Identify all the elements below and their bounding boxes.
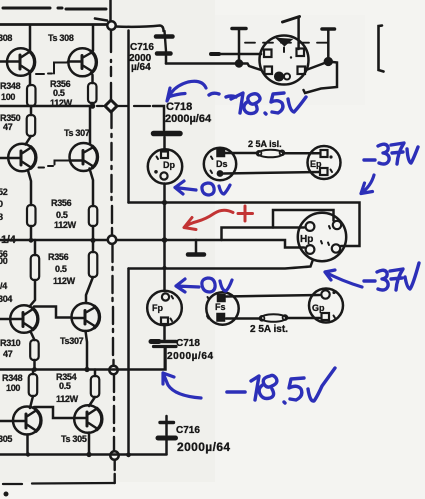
node N1: [107, 21, 115, 29]
connector Ds: [204, 148, 236, 180]
svg-text:0.5: 0.5: [59, 381, 71, 391]
resistor R310(47): [30, 340, 39, 370]
text -18.5v top: [209, 93, 236, 97]
wire C716 to Bp lower-left pin: [166, 64, 261, 71]
wire Bp lower-right to junction: [306, 62, 328, 71]
wire Fs-Gp top: [226, 295, 320, 297]
wire line A: [129, 203, 360, 247]
resistor R348 rowD: [29, 370, 38, 397]
capacitor C718 bottom: [151, 342, 176, 370]
capacitor C718 top: [154, 134, 181, 151]
transistor Ts307 b: [70, 106, 98, 206]
terminal T1: [232, 29, 246, 67]
arrow blue hook top right: [361, 175, 374, 194]
node dot bus1 x165: [162, 237, 168, 243]
text fuse labels: [248, 139, 288, 335]
wire top bus: [0, 23, 107, 26]
svg-text:Hp: Hp: [300, 234, 313, 245]
annotations red: [184, 206, 253, 230]
svg-text:100: 100: [1, 92, 15, 102]
node dot bus3 x34: [32, 367, 37, 372]
svg-text:100: 100: [6, 383, 20, 393]
svg-text:Ep: Ep: [310, 159, 322, 169]
wire dash-dot to C718: [97, 105, 150, 107]
connector Ep: [308, 146, 341, 179]
wire bus1: [0, 240, 304, 248]
wire dash-dot vertical rail: [111, 31, 115, 484]
svg-text:47: 47: [3, 122, 13, 132]
text 0v (Dp): [202, 183, 230, 195]
svg-text:C718: C718: [166, 101, 192, 113]
annotations blue: [163, 81, 419, 403]
node dot H3 end: [90, 103, 96, 109]
svg-text:2000µ/64: 2000µ/64: [167, 351, 214, 362]
resistor R356 rowC left: [31, 240, 40, 280]
svg-text:µ/64: µ/64: [131, 62, 151, 73]
text -18.5v bottom: [227, 390, 245, 394]
svg-text:0: 0: [0, 199, 3, 209]
wire bottom-left dash-dot corner: [32, 482, 115, 485]
svg-text:R348: R348: [2, 373, 23, 383]
node N3: [109, 366, 117, 374]
capacitor C716 bottom: [158, 416, 176, 454]
capacitor C716: [156, 31, 173, 64]
wire vertical x128 lower: [127, 269, 130, 456]
svg-text:Fp: Fp: [152, 303, 163, 313]
wire crease dashed: [245, 42, 331, 44]
wire top dashed rail: [3, 8, 106, 9]
svg-text:Ts307: Ts307: [60, 336, 84, 346]
svg-text:Ts 307: Ts 307: [64, 128, 90, 138]
node N2: [108, 236, 116, 244]
connector Gp: [309, 289, 343, 323]
svg-text:Fs: Fs: [215, 302, 226, 312]
svg-text:C716: C716: [130, 42, 154, 53]
svg-text:2000µ/64: 2000µ/64: [177, 440, 231, 454]
wire bus4: [0, 453, 167, 456]
arrow blue left-0v (Fp): [176, 279, 199, 292]
node dot bus4 x89: [86, 452, 91, 457]
node dot bus1 x93: [90, 238, 95, 243]
svg-text:Dp: Dp: [163, 160, 175, 170]
wire coupling dash row A: [36, 63, 67, 75]
transistor Ts308 b: [68, 26, 96, 83]
transistor Ts305 b: [74, 397, 102, 455]
resistor R356 rowB right: [89, 206, 98, 226]
arrow blue to Hp (-37v bottom): [325, 270, 362, 287]
text 0v (Fp): [202, 278, 232, 292]
transistor Ts307 d: [72, 277, 100, 370]
svg-text:Ts 305: Ts 305: [61, 434, 87, 444]
fuse F1: [257, 150, 285, 158]
svg-text:2000µ/64: 2000µ/64: [165, 113, 212, 125]
svg-text:112W: 112W: [50, 98, 73, 108]
svg-text:308: 308: [0, 33, 12, 43]
node diamond x111: [105, 100, 117, 112]
connector Hp: [298, 213, 346, 261]
connector Bp: [260, 36, 309, 85]
svg-text:/4: /4: [0, 281, 7, 291]
svg-text:0.5: 0.5: [55, 264, 67, 274]
arrow red: [184, 210, 233, 229]
transistor arc emphasis: [30, 51, 102, 431]
svg-text:C716: C716: [176, 425, 200, 436]
transistor Ts307 c (304): [0, 280, 38, 340]
wire coupling dash row B: [39, 161, 70, 168]
plus red: [238, 206, 253, 221]
text -37v top right: [364, 143, 418, 164]
wire rail H3: [0, 105, 92, 108]
resistor R354 rowD: [91, 370, 100, 398]
svg-text:Ds: Ds: [216, 159, 228, 169]
wire Dp-Fp vertical: [163, 184, 166, 292]
bracket right: [379, 26, 384, 72]
svg-text:112W: 112W: [54, 220, 77, 230]
svg-text:R310: R310: [0, 338, 21, 348]
wire short seg left of node: [95, 19, 107, 21]
connector Dp: [148, 149, 182, 183]
wire line B step: [222, 228, 305, 241]
svg-text:8: 8: [0, 212, 3, 222]
svg-text:Ts 308: Ts 308: [48, 33, 74, 43]
svg-text:52: 52: [0, 187, 8, 197]
arrow blue bottom (to C718b): [163, 373, 201, 398]
connector Fs: [206, 292, 238, 324]
wire junction down-right drop: [304, 62, 338, 94]
svg-text:112W: 112W: [56, 394, 79, 404]
resistor R356 rowA: [88, 83, 97, 103]
blot bottom-left: [4, 492, 9, 497]
svg-text:C718: C718: [176, 338, 200, 349]
wire bus2: [129, 260, 314, 269]
text capacitor labels: [129, 42, 231, 454]
node dot bus4 x28: [26, 452, 30, 456]
svg-text:47: 47: [3, 349, 13, 359]
wire stub above node: [109, 0, 112, 22]
svg-text:Gp: Gp: [312, 303, 325, 313]
svg-text:2 5A isl.: 2 5A isl.: [248, 139, 282, 149]
resistor R348(100) rowA: [27, 85, 36, 106]
arrow blue top (to C718): [167, 81, 206, 101]
svg-text:0.5: 0.5: [56, 210, 68, 220]
terminal T2: [322, 29, 335, 65]
transistor Ts305 a: [0, 396, 41, 455]
wire TD2 base link: [34, 407, 73, 418]
svg-text:R356: R356: [48, 252, 69, 262]
svg-text:1/4: 1/4: [1, 234, 17, 246]
wire bus3: [0, 349, 166, 370]
svg-text:304: 304: [0, 294, 12, 304]
wire flag diagonal: [283, 17, 300, 23]
wire node to C716: [116, 26, 164, 32]
resistor R356 rowC right: [89, 240, 98, 277]
fuse F2: [260, 314, 288, 322]
svg-text:112W: 112W: [53, 276, 76, 286]
svg-text:0.5: 0.5: [53, 88, 65, 98]
svg-text:305: 305: [0, 434, 12, 444]
resistor R356 rowB left: [27, 205, 36, 226]
connector Fp: [147, 291, 182, 326]
node dot x165 bus2: [162, 266, 166, 270]
svg-text:00: 00: [0, 256, 8, 266]
wire Bp upper-left stub: [211, 53, 261, 56]
transistor Ts307 a: [0, 136, 36, 205]
arrow blue left-0v (Dp): [175, 181, 196, 194]
svg-text:R348: R348: [0, 81, 21, 91]
node N4: [110, 451, 118, 459]
node dot bus4 x128: [126, 452, 131, 457]
node dot bus3 x87: [84, 367, 89, 372]
wire vertical x128 upper: [127, 31, 130, 203]
svg-text:R356: R356: [51, 198, 72, 208]
wire TC2 base link: [34, 307, 71, 318]
wire Bp top pin up: [297, 18, 300, 50]
wire Fp to C718: [163, 325, 166, 340]
text connector labels: [152, 159, 325, 313]
text -37v bottom right: [364, 263, 419, 290]
text printed labels left block: [0, 33, 90, 444]
wire Fs-Gp bottom with fuse: [226, 317, 260, 320]
wire Ds-Ep top with fuse: [225, 152, 257, 155]
wire Ds-Ep bottom: [224, 172, 320, 174]
transistor Ts308 a: [0, 26, 35, 85]
ground: [188, 240, 204, 255]
node dot on line A: [162, 200, 167, 205]
svg-text:2 5A ist.: 2 5A ist.: [250, 324, 288, 335]
node dot bus1 x31: [29, 238, 34, 243]
resistor R350(47): [27, 106, 36, 136]
